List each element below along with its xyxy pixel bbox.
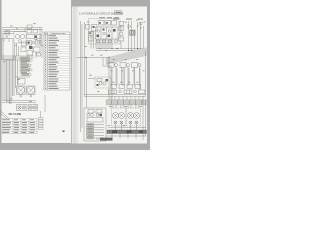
spool dark marks bbox=[97, 35, 100, 38]
parts table rows bbox=[44, 37, 70, 87]
bank component row bbox=[111, 85, 117, 89]
valve V2 bbox=[27, 30, 32, 34]
pump P2 bbox=[20, 34, 24, 38]
valve spool S3 bbox=[108, 30, 111, 33]
pump group 1 dashed box bbox=[112, 108, 126, 126]
pump P1 bbox=[15, 34, 19, 38]
motor M5 bbox=[29, 106, 32, 109]
left page edge line bbox=[71, 0, 73, 143]
wire drops from aux row bbox=[110, 68, 112, 87]
wire top bus bbox=[2, 27, 43, 29]
valve block V4 bbox=[27, 35, 35, 39]
motor M8 bbox=[119, 113, 125, 119]
valve V7 bbox=[21, 47, 26, 52]
wire riser to connector stack bbox=[40, 111, 42, 118]
title text bbox=[79, 12, 123, 16]
pump group 2 dashed box bbox=[127, 108, 141, 126]
motor M1 bbox=[17, 86, 25, 94]
wire main left riser bbox=[80, 21, 82, 132]
motor M4 bbox=[22, 106, 25, 109]
valve V11 bbox=[120, 63, 126, 68]
connector stack right of bottom table bbox=[39, 118, 44, 130]
shaded band lower bbox=[106, 100, 147, 106]
breather cap bbox=[140, 23, 143, 25]
tank T1 bbox=[2, 39, 14, 60]
node dots bbox=[116, 48, 117, 49]
valve V1 bbox=[27, 25, 32, 29]
wire bus left mid bbox=[77, 57, 111, 59]
motor M3 bbox=[18, 106, 21, 109]
left page bbox=[2, 0, 72, 143]
valve spool S2 bbox=[103, 32, 106, 35]
feed valve a bbox=[89, 32, 94, 36]
filter F1 bbox=[5, 31, 10, 36]
pilot valve V13 bbox=[97, 79, 102, 82]
pump group dashed box bbox=[14, 32, 26, 44]
motor M10 bbox=[134, 113, 140, 119]
ticks on band bbox=[109, 105, 111, 109]
parts table text smudges bbox=[44, 32, 65, 89]
motor M7 bbox=[113, 113, 119, 119]
wire risers mid bbox=[14, 43, 16, 56]
valve V8 bbox=[18, 79, 25, 85]
valve V12 bbox=[132, 63, 138, 68]
shuttle valve V15 bbox=[130, 31, 136, 36]
gutter shadow bbox=[72, 7, 80, 144]
shaded band upper bbox=[106, 48, 147, 65]
wire h y101 bbox=[2, 100, 36, 102]
spring tick b bbox=[140, 27, 142, 29]
svg-text:OIL FLOW: OIL FLOW bbox=[9, 113, 22, 116]
inset text smudges bbox=[87, 124, 93, 138]
wire bottom links bbox=[108, 127, 146, 129]
aux valve row under band: valve V10 bbox=[108, 63, 114, 68]
motor M9 bbox=[128, 113, 134, 119]
valve V9 bbox=[130, 30, 135, 35]
drain port small circle a bbox=[20, 95, 22, 97]
wire right risers bbox=[128, 21, 130, 50]
pump P9 bbox=[135, 121, 138, 124]
page number left bbox=[63, 131, 65, 132]
motor M2 frame bbox=[27, 86, 36, 95]
labels above control valve bbox=[99, 16, 119, 19]
pump P7 bbox=[120, 121, 123, 124]
wires under control valve bbox=[95, 39, 97, 49]
scattered tiny labels left page bbox=[3, 23, 43, 101]
pump P8 bbox=[129, 121, 132, 124]
motor M6 bbox=[33, 106, 36, 109]
right page bbox=[72, 7, 148, 144]
valve V3 bbox=[33, 30, 38, 34]
cylinder group box A bbox=[17, 105, 28, 111]
wire bus y56-60 bbox=[2, 55, 30, 57]
inset box bbox=[84, 108, 106, 141]
pump P3 bbox=[19, 40, 22, 43]
inset top cluster: valve V14 bbox=[88, 110, 94, 114]
table bottom-left bbox=[1, 119, 37, 134]
inset mid box bbox=[87, 118, 103, 123]
svg-text:Component name: Component name bbox=[51, 32, 66, 35]
ticks inside band bbox=[111, 100, 113, 105]
wire cross bus y48-51 bbox=[96, 48, 146, 50]
pump P6 bbox=[114, 121, 117, 124]
tank manifold bar bbox=[107, 130, 147, 134]
control valve block U1 top row bbox=[99, 21, 105, 26]
relief valve R1 bbox=[119, 22, 124, 26]
backdrop bbox=[0, 0, 150, 150]
valve bank rows bbox=[85, 94, 147, 96]
scattered tiny labels right page bbox=[85, 20, 146, 126]
motor M2 bbox=[27, 86, 35, 94]
caption OIL FLOW bbox=[9, 113, 22, 116]
wire vertical bundle left bbox=[3, 34, 18, 105]
labels top right bbox=[113, 18, 143, 21]
wire drops aux extra bbox=[121, 68, 123, 85]
control valve outer frame bbox=[89, 19, 121, 45]
inset rows bbox=[87, 124, 105, 140]
drain port small circle b bbox=[30, 95, 32, 97]
pilot pump P5 bbox=[103, 82, 106, 85]
gutter-side valve bbox=[86, 25, 90, 30]
check valve C1 bbox=[128, 25, 131, 29]
wire diagonal feeders bbox=[0, 111, 9, 119]
gauge G1 bbox=[119, 32, 123, 36]
port label tags column bbox=[20, 57, 32, 76]
solenoid valve V6 bbox=[22, 42, 27, 46]
control valve inlet box bbox=[92, 25, 98, 32]
drain block bbox=[100, 138, 113, 141]
spring tick a bbox=[137, 25, 139, 27]
feed valve b bbox=[89, 37, 94, 41]
title box bbox=[115, 11, 123, 15]
svg-text:No.: No. bbox=[44, 33, 47, 35]
pilot pump P4 bbox=[99, 82, 102, 85]
control valve block U1 body bbox=[96, 27, 119, 39]
cylinder group box B bbox=[29, 105, 38, 111]
port tick row under valve body bbox=[97, 40, 100, 42]
valve block V5 with circle bbox=[27, 41, 32, 46]
valve spool S1 bbox=[97, 30, 100, 33]
motor M1 frame bbox=[17, 86, 26, 95]
pilot unit dashed box bbox=[95, 77, 111, 88]
table bottom-left text smudges bbox=[2, 119, 35, 132]
